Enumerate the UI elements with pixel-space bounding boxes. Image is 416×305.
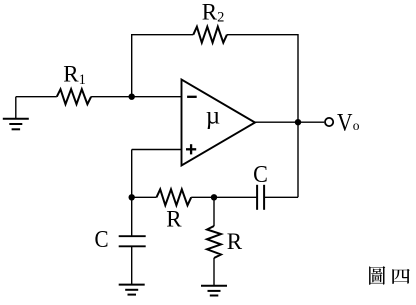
- capacitor C (series horizontal): [256, 185, 258, 210]
- op-amp minus sign: [187, 96, 197, 98]
- svg-text:V: V: [337, 109, 353, 137]
- node A: junction inverting input: [129, 94, 135, 100]
- svg-text:µ: µ: [206, 103, 220, 130]
- resistor R (series horizontal): [157, 189, 192, 205]
- svg-text:o: o: [353, 118, 360, 133]
- wire: R to series capacitor: [191, 196, 257, 198]
- caption 圖四 (Figure 4): [369, 266, 410, 285]
- wire: top left to R2: [131, 34, 193, 36]
- resistor R1: [57, 89, 91, 104]
- wire: left vertical down to RC network: [131, 150, 133, 198]
- svg-text:C: C: [253, 161, 268, 188]
- wire: op-amp output: [254, 121, 324, 123]
- wire: node C down to shunt R: [213, 197, 215, 226]
- node C: junction R / shunt R: [211, 194, 217, 200]
- capacitor C (shunt): [119, 235, 146, 237]
- wire: shunt R to ground: [213, 258, 215, 286]
- svg-text:R: R: [166, 207, 182, 232]
- svg-text:R: R: [227, 229, 243, 254]
- wire: R2 to right vertical: [227, 34, 298, 36]
- wire: shunt C to ground: [131, 246, 133, 284]
- op-amp plus sign: [186, 148, 196, 150]
- ground (shunt C): [119, 285, 145, 295]
- wire: right vertical (feedback/output bus): [297, 34, 299, 197]
- resistor R (shunt vertical): [207, 226, 221, 258]
- resistor R2: [193, 27, 227, 43]
- svg-text:C: C: [95, 226, 109, 253]
- wire: non-inverting input: [132, 149, 182, 151]
- wire: junction up to feedback: [131, 35, 133, 97]
- node B: junction + input network: [129, 194, 135, 200]
- wire: input ground to R1: [16, 96, 57, 98]
- wire: capacitor to right vertical: [264, 196, 298, 198]
- wire: junction to R (series): [132, 196, 157, 198]
- node: output junction: [295, 119, 301, 125]
- label C (shunt): [95, 226, 109, 253]
- wire: R1 to inverting input: [91, 96, 181, 98]
- op-amp U1 triangle: [182, 80, 256, 166]
- terminal Vo open circle: [325, 118, 333, 126]
- wire: node B down to shunt C: [131, 197, 133, 236]
- label Vo: [337, 109, 353, 137]
- ground (shunt R): [201, 286, 227, 296]
- ground (input): [15, 97, 17, 119]
- label C (series): [253, 161, 268, 188]
